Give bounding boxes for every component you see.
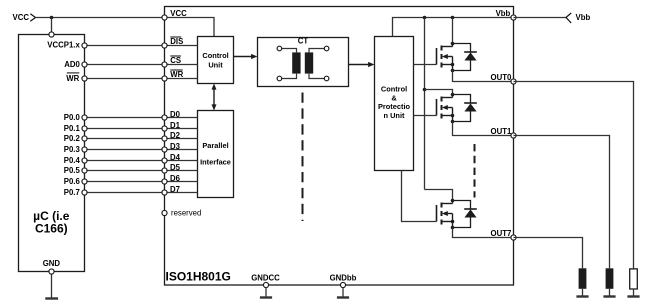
svg-text:OUT0: OUT0 <box>491 73 512 82</box>
pin reserved <box>162 210 167 215</box>
svg-text:AD0: AD0 <box>64 60 80 69</box>
svg-text:Unit: Unit <box>208 61 223 70</box>
svg-text:&: & <box>391 93 397 102</box>
wire GNDCC to ground <box>265 287 267 297</box>
pin DIS <box>162 43 167 48</box>
wire Vbb rail <box>393 18 514 37</box>
diode D1 freewheeling OUT1 <box>453 95 477 122</box>
terminal uC P0.4 <box>82 158 87 163</box>
terminal CT top-left <box>277 46 282 51</box>
pin WR <box>162 76 167 81</box>
resistor load OUT0 <box>630 269 638 289</box>
wire P0.7 to D7 <box>85 192 165 194</box>
terminal uC AD0 <box>82 62 87 67</box>
wire P0.5 to D5 <box>85 170 165 172</box>
wire source to OUT7 pin <box>453 228 514 238</box>
svg-text:OUT7: OUT7 <box>491 229 512 238</box>
svg-text:Control: Control <box>202 51 228 60</box>
ground load OUT0 <box>627 295 639 297</box>
wire VCC drop to uC <box>51 18 53 35</box>
wire OUT7 to load <box>514 238 583 269</box>
arrow CT to Control and Protection Unit <box>349 64 371 66</box>
diode D0 freewheeling OUT0 <box>453 44 477 71</box>
transistor Q7 power DMOS OUT7 <box>437 199 455 230</box>
bus arrow Control Unit to Parallel Interface <box>213 88 215 106</box>
terminal uC GND <box>49 269 54 274</box>
junction VCC node <box>50 16 54 20</box>
wire source to OUT0 pin <box>453 71 514 82</box>
pin D5 <box>162 168 167 173</box>
wire load OUT1 to ground <box>609 289 611 296</box>
wire P0.4 to D4 <box>85 160 165 162</box>
terminal uC P0.3 <box>82 147 87 152</box>
svg-text:C166): C166) <box>35 222 68 236</box>
channel ellipsis dashed line OUT2-OUT6 <box>474 144 476 198</box>
terminal uC P0.2 <box>82 136 87 141</box>
svg-text:CT: CT <box>298 37 309 46</box>
svg-text:P0.2: P0.2 <box>64 134 81 143</box>
pin D4 <box>162 158 167 163</box>
wire GNDbb to ground <box>342 287 344 297</box>
svg-text:VCC: VCC <box>170 9 187 18</box>
terminal uC VCCP top <box>49 32 54 37</box>
svg-text:OUT1: OUT1 <box>491 127 512 136</box>
pin D6 <box>162 179 167 184</box>
wire OUT1 gate drive <box>414 115 437 117</box>
transformer secondary winding <box>305 52 313 73</box>
svg-text:ISO1H801G: ISO1H801G <box>166 270 231 284</box>
wire WR to Control Unit <box>165 78 198 80</box>
svg-text:DIS: DIS <box>170 37 183 46</box>
svg-text:P0.6: P0.6 <box>64 177 81 186</box>
pin D0 <box>162 115 167 120</box>
transistor Q1 power DMOS OUT1 <box>437 93 455 124</box>
svg-text:Parallel: Parallel <box>202 141 228 150</box>
block Parallel Interface <box>198 111 234 198</box>
pin OUT1 <box>511 133 516 138</box>
isolation barrier dashed line <box>302 93 304 222</box>
terminal uC P0.7 <box>82 190 87 195</box>
terminal CT bottom-left <box>277 76 282 81</box>
wire WR to WR <box>85 78 165 80</box>
transistor Q0 power DMOS OUT0 <box>437 42 455 73</box>
svg-text:Vbb: Vbb <box>496 9 511 18</box>
ground GNDbb <box>337 296 349 298</box>
svg-text:GND: GND <box>43 259 61 268</box>
svg-text:P0.5: P0.5 <box>64 166 81 175</box>
wire OUT1 to load <box>514 136 610 269</box>
svg-text:CS: CS <box>170 56 181 65</box>
wire OUT0 gate drive <box>414 64 437 66</box>
wire D6 to Parallel Interface <box>165 181 198 183</box>
wire secondary top <box>309 49 324 53</box>
svg-text:P0.0: P0.0 <box>64 113 81 122</box>
terminal uC P0.0 <box>82 115 87 120</box>
svg-text:WR: WR <box>66 74 79 83</box>
svg-text:GNDbb: GNDbb <box>330 273 357 282</box>
wire P0.6 to D6 <box>85 181 165 183</box>
svg-text:VCC: VCC <box>13 13 30 22</box>
pin D3 <box>162 147 167 152</box>
pin CS <box>162 62 167 67</box>
terminal CT top-right <box>324 46 329 51</box>
wire VCC to Control Unit <box>165 18 215 37</box>
terminal uC P0.5 <box>82 168 87 173</box>
block Control and Protection Unit <box>375 37 414 171</box>
block uC (i.e C166) <box>19 35 85 272</box>
terminal uC WR <box>82 76 87 81</box>
node Vbb supply connector <box>566 13 571 23</box>
ground GNDCC <box>260 296 272 298</box>
pin VCC <box>162 15 167 20</box>
svg-text:Interface: Interface <box>200 157 231 166</box>
junction OUT1 drain tap <box>423 88 427 92</box>
terminal uC VCCP1.x <box>82 43 87 48</box>
resistor load OUT1 <box>606 268 614 289</box>
wire Vbb drain bus vertical <box>424 18 426 190</box>
svg-text:Protectio: Protectio <box>378 102 411 111</box>
ground load OUT7 <box>576 295 588 297</box>
terminal uC P0.1 <box>82 126 87 131</box>
wire OUT0 to load <box>514 82 634 269</box>
terminal CT bottom-right <box>324 76 329 81</box>
wire OUT1 drain feed from Vbb <box>425 90 453 95</box>
wire secondary bottom <box>309 74 324 79</box>
wire P0.2 to D2 <box>85 138 165 140</box>
wire VCCP1.x to DIS <box>85 45 165 47</box>
wire primary top <box>282 49 297 53</box>
svg-text:reserved: reserved <box>171 208 201 217</box>
junction Vbb rail right <box>451 16 455 20</box>
wire OUT7 drain feed from Vbb <box>425 190 453 201</box>
wire P0.3 to D3 <box>85 149 165 151</box>
wire P0.1 to D1 <box>85 128 165 130</box>
wire Vbb external <box>514 17 567 19</box>
pin D1 <box>162 126 167 131</box>
pin D7 <box>162 190 167 195</box>
svg-text:WR: WR <box>170 70 183 79</box>
wire OUT0 drain feed from Vbb <box>452 18 454 44</box>
diode D7 freewheeling OUT7 <box>453 201 477 228</box>
ground load OUT1 <box>603 295 615 297</box>
wire load OUT0 to ground <box>633 289 635 296</box>
wire D0 to Parallel Interface <box>165 117 198 119</box>
wire D7 to Parallel Interface <box>165 192 198 194</box>
wire D5 to Parallel Interface <box>165 170 198 172</box>
wire VCC to chip <box>36 17 165 19</box>
wire D2 to Parallel Interface <box>165 138 198 140</box>
svg-text:P0.3: P0.3 <box>64 145 81 154</box>
transformer primary winding <box>292 52 300 73</box>
pin OUT0 <box>511 79 516 84</box>
pin D2 <box>162 136 167 141</box>
block CT coupling transformer <box>258 38 349 87</box>
wire D3 to Parallel Interface <box>165 149 198 151</box>
wire D4 to Parallel Interface <box>165 160 198 162</box>
svg-text:Control: Control <box>381 85 407 94</box>
resistor load OUT7 <box>579 268 587 289</box>
block ISO1H801G chip outline <box>165 7 514 286</box>
arrow Control Unit to CT <box>234 56 254 58</box>
terminal uC P0.6 <box>82 179 87 184</box>
wire primary bottom <box>282 74 297 79</box>
junction Vbb rail left <box>423 16 427 20</box>
wire load OUT7 to ground <box>582 289 584 296</box>
wire OUT7 gate drive <box>402 171 437 222</box>
wire AD0 to CS <box>85 64 165 66</box>
pin OUT7 <box>511 235 516 240</box>
wire source to OUT1 pin <box>453 122 514 136</box>
wire P0.0 to D0 <box>85 117 165 119</box>
wire DIS to Control Unit <box>165 45 198 47</box>
svg-text:P0.1: P0.1 <box>64 124 81 133</box>
wire uC GND to ground <box>51 272 53 299</box>
wire D1 to Parallel Interface <box>165 128 198 130</box>
svg-text:VCCP1.x: VCCP1.x <box>47 40 80 49</box>
svg-text:P0.4: P0.4 <box>64 156 81 165</box>
pin Vbb <box>511 15 516 20</box>
svg-text:P0.7: P0.7 <box>64 188 80 197</box>
ground symbol uC GND <box>45 297 58 299</box>
node VCC input connector <box>30 14 35 21</box>
svg-text:Vbb: Vbb <box>576 13 591 22</box>
block Control Unit <box>198 37 234 84</box>
wire CS to Control Unit <box>165 64 198 66</box>
svg-text:GNDCC: GNDCC <box>251 273 280 282</box>
svg-text:n Unit: n Unit <box>384 111 405 120</box>
